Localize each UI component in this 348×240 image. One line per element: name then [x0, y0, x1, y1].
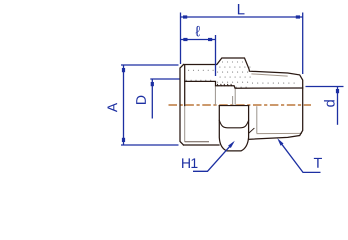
leader H1: [193, 143, 233, 171]
label L: [238, 4, 245, 14]
ext line D top: [150, 78, 179, 80]
dim D line: [151, 79, 153, 119]
label A: [107, 103, 117, 112]
dim A line: [123, 65, 125, 145]
box L right: [296, 15, 300, 18]
gray hidden edges seen through bore: [215, 86, 256, 134]
label d: [324, 100, 335, 107]
stipple dots (section texture): [186, 61, 295, 87]
bottom cylinder edge: [184, 144, 220, 146]
ext line L right: [302, 13, 304, 75]
box l left: [183, 38, 187, 41]
ext line L left: [180, 13, 182, 65]
label D: [136, 96, 146, 104]
fitting outline: [180, 58, 303, 151]
socket bore: [185, 81, 303, 88]
thread root lines (gray): [251, 74, 302, 134]
arrowhead T: [277, 138, 283, 146]
leader T: [279, 141, 320, 173]
ext line d top: [306, 86, 344, 88]
arrowhead H1: [228, 141, 235, 148]
arrow boxes: [122, 15, 339, 148]
centerline: [169, 104, 312, 106]
blue dimensions: [121, 13, 344, 173]
label l (script ell): [195, 26, 200, 37]
dim l line: [181, 39, 216, 41]
box L left: [183, 15, 187, 18]
cylinder chamfer line bottom: [185, 141, 209, 143]
socket end chamfer ring (bottom, gray): [184, 106, 186, 142]
ext line A bottom: [121, 144, 179, 146]
top outline: cylinder, hex hump, thread crest, end face, bottom crest: [184, 58, 303, 139]
label H1 (H): [182, 158, 190, 168]
dim d line: [337, 87, 339, 125]
left end face inner wall: [184, 65, 186, 106]
dim L line: [181, 16, 303, 18]
hex silhouette: [219, 106, 248, 151]
box l right: [208, 38, 212, 41]
female thread crest ticks: [217, 84, 231, 86]
box A bottom: [122, 138, 125, 142]
thread runout wedge behind hex: [249, 128, 254, 133]
label T: [314, 158, 322, 168]
left end face outer: [180, 65, 184, 146]
box D top: [151, 82, 154, 86]
ext line A top: [121, 64, 179, 66]
box d top: [336, 89, 339, 93]
hex chamfer curve: [219, 120, 248, 128]
ext line l right: [215, 35, 217, 76]
label H1 (1): [191, 158, 197, 168]
box A top: [122, 68, 125, 72]
hex top boundary: [219, 105, 248, 107]
